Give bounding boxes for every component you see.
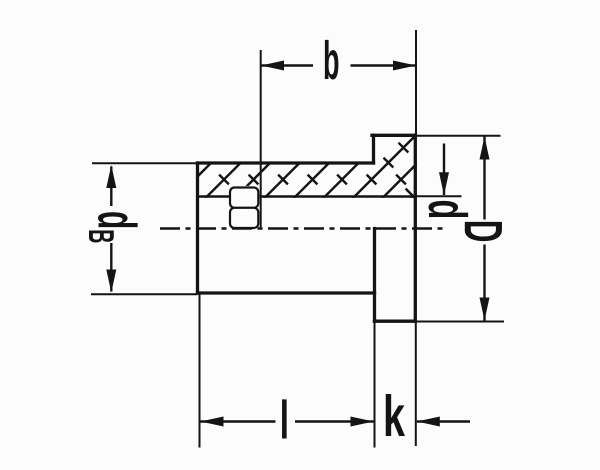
D up — [480, 137, 490, 160]
dB — [110, 167, 112, 207]
label D rotated — [465, 222, 502, 241]
flange top — [372, 134, 415, 137]
flange right edge — [414, 135, 417, 321]
dB top — [106, 165, 116, 188]
d — [443, 144, 445, 196]
hub bottom surface — [198, 291, 375, 294]
extension line D bottom — [416, 321, 504, 323]
extension line dB bottom — [91, 293, 198, 295]
hub top surface — [198, 161, 374, 164]
hatch cross ticks — [219, 143, 415, 199]
flange face edge lower half — [373, 229, 376, 322]
hatching (section) — [176, 135, 476, 199]
k right — [417, 417, 440, 427]
label k — [386, 394, 405, 436]
white keyway notch — [229, 186, 259, 198]
label dB rotated — [89, 212, 138, 242]
key cross-section boxes — [230, 188, 258, 229]
label b — [325, 40, 339, 80]
extension line k right — [415, 322, 417, 446]
label d rotated — [428, 201, 468, 217]
extension line l right / k left — [374, 322, 376, 448]
bore line — [198, 195, 416, 197]
hub left edge — [196, 163, 199, 293]
label l — [282, 399, 287, 438]
b right — [393, 61, 416, 71]
D down — [480, 298, 490, 321]
b left — [261, 61, 284, 71]
k tail — [417, 420, 470, 422]
D — [483, 137, 485, 220]
part outline — [198, 135, 416, 321]
dB bottom — [106, 270, 116, 293]
dimension lines — [111, 66, 484, 422]
b — [261, 64, 313, 66]
extension line D top — [416, 135, 501, 137]
extension line b right — [415, 30, 417, 136]
extension line dB top — [92, 162, 198, 164]
extension line l left — [199, 294, 201, 448]
step flange left upper — [372, 135, 375, 163]
l — [201, 420, 276, 422]
l right / k left — [351, 417, 374, 427]
extension line b left — [260, 50, 262, 229]
extension line d bore — [415, 195, 461, 197]
d down — [439, 172, 449, 195]
arrowheads — [106, 61, 489, 427]
center line — [160, 227, 448, 230]
flange bottom — [375, 320, 416, 323]
l left — [201, 417, 224, 427]
